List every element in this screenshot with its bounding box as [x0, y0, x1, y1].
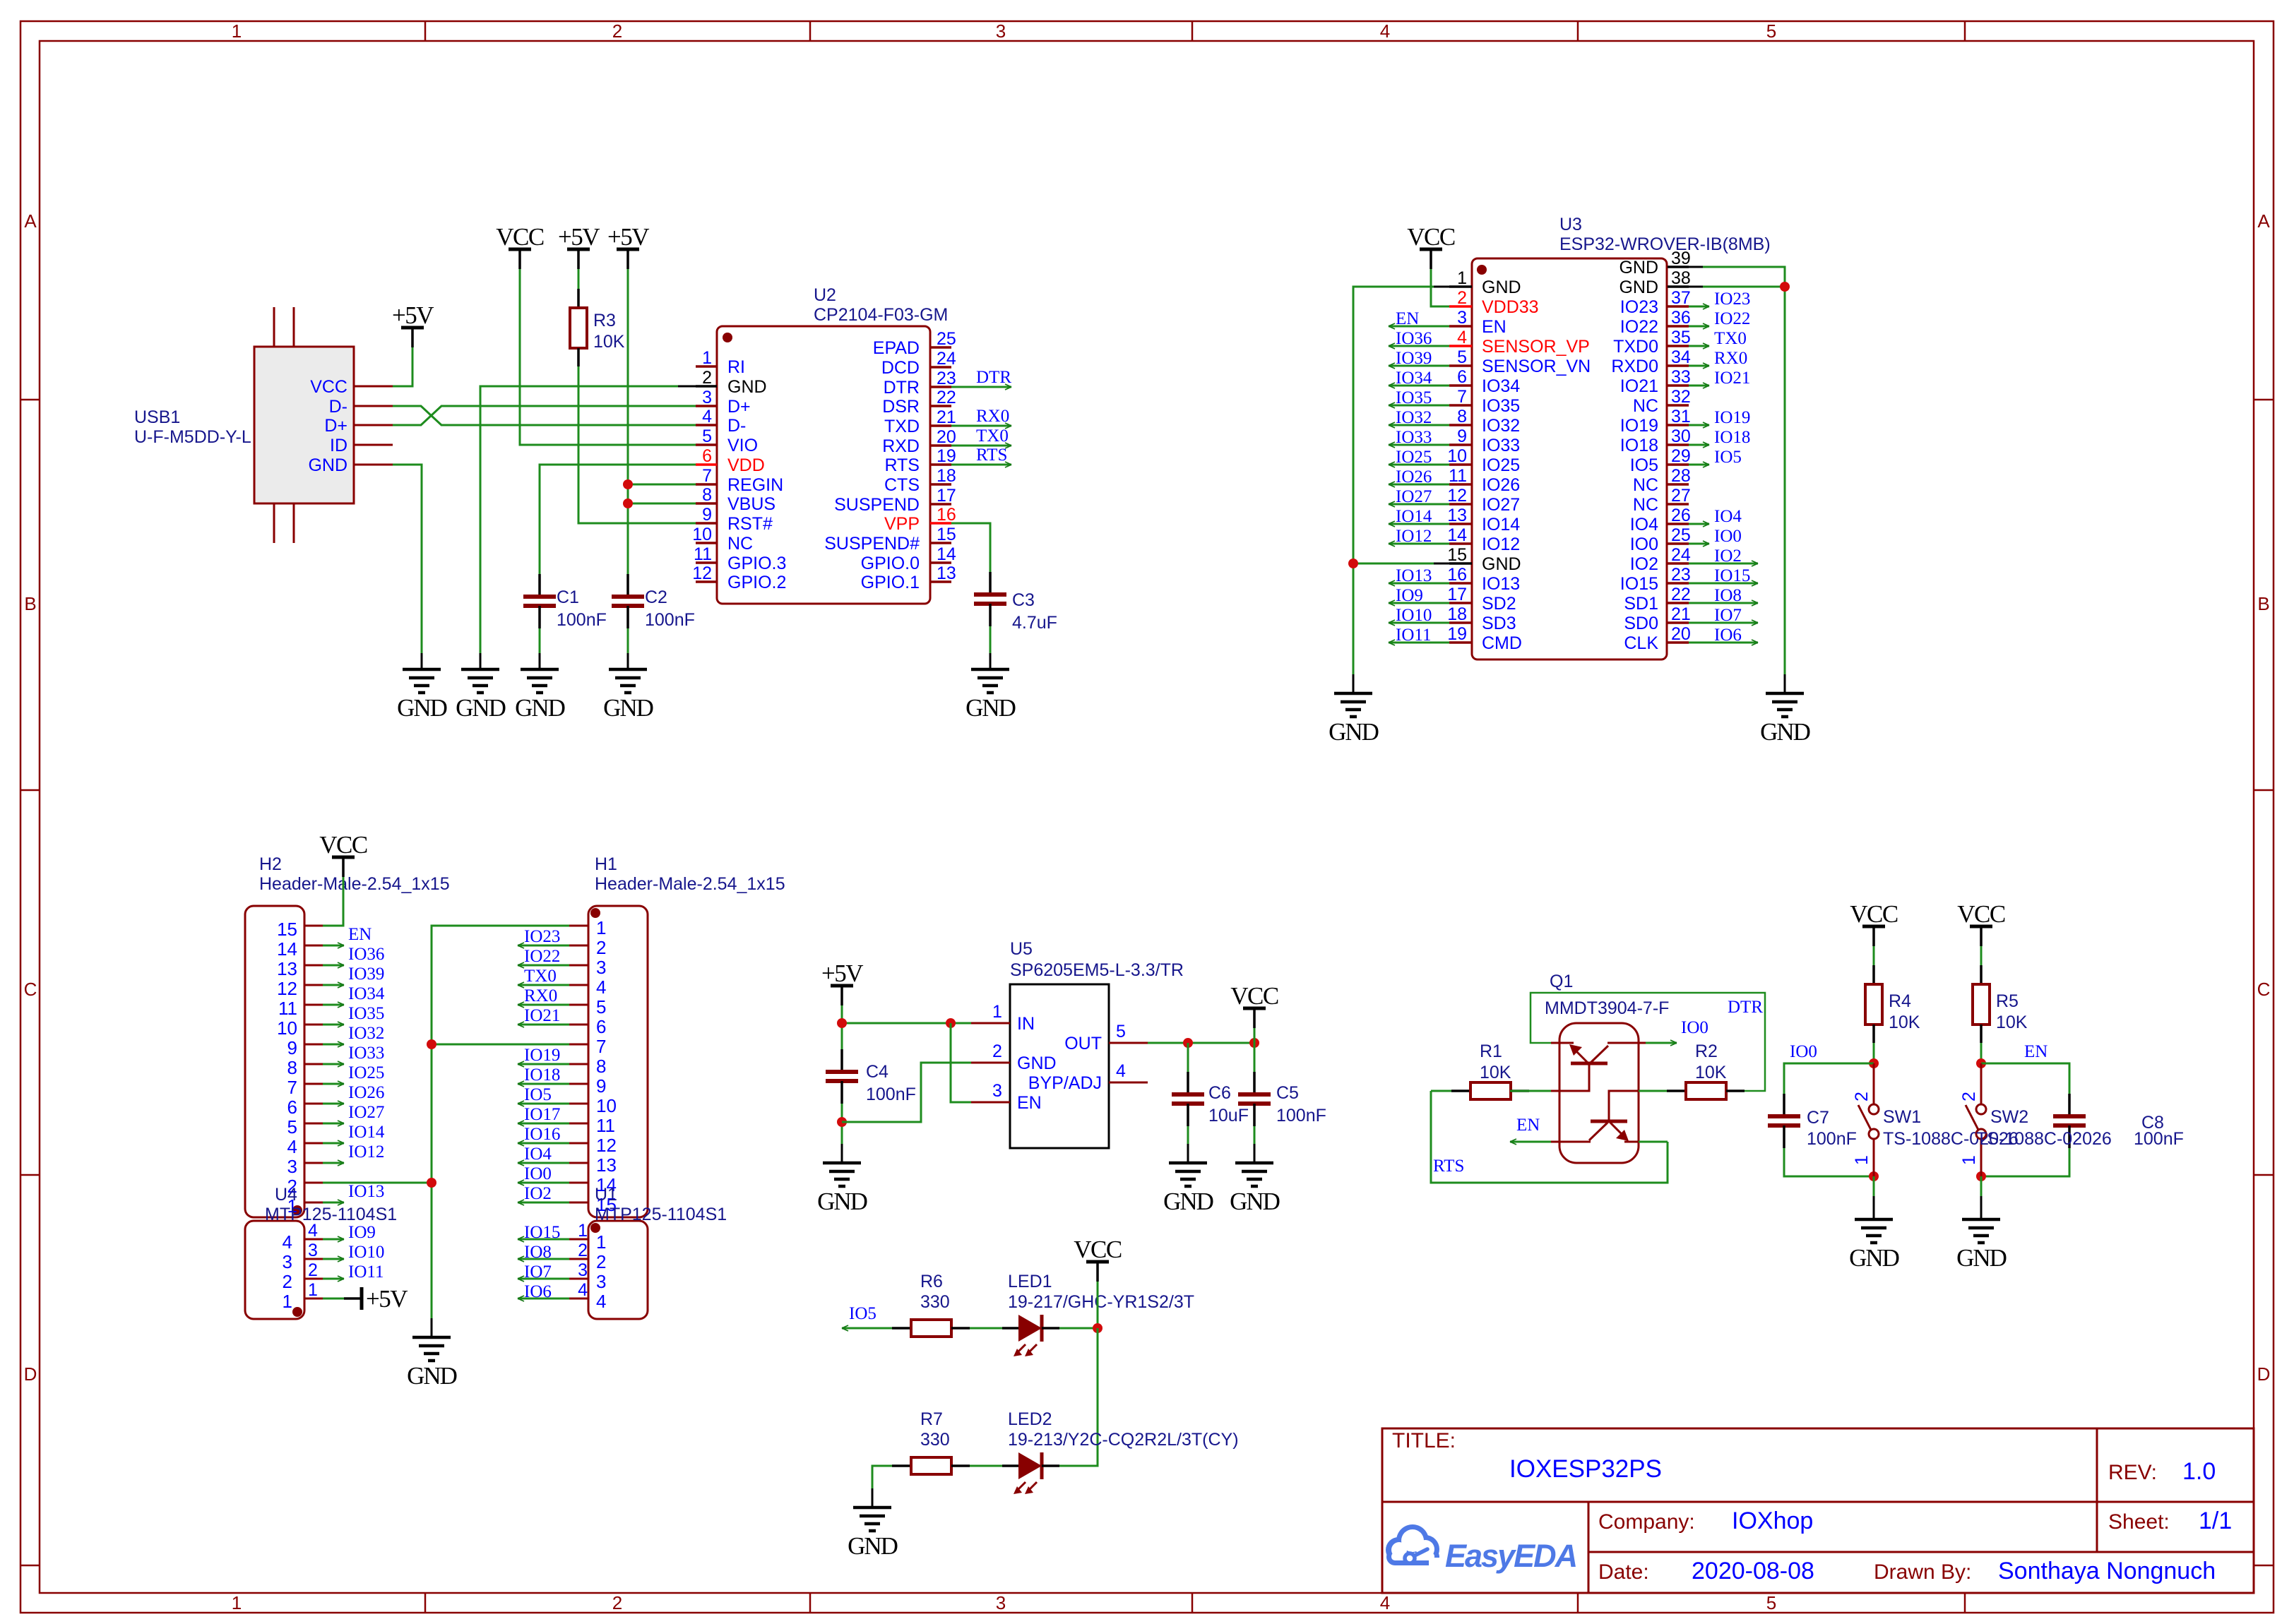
wire SW2 to ground: [1980, 1176, 1983, 1196]
svg-text:C2: C2: [645, 587, 667, 607]
svg-text:3: 3: [996, 20, 1006, 42]
svg-text:IO5: IO5: [849, 1304, 876, 1323]
svg-text:8: 8: [596, 1056, 606, 1077]
svg-text:25: 25: [1671, 525, 1691, 545]
svg-text:2020-08-08: 2020-08-08: [1692, 1558, 1814, 1584]
ground (C1): [515, 669, 565, 722]
svg-text:18: 18: [1447, 604, 1467, 624]
svg-text:NC: NC: [1633, 475, 1658, 495]
svg-text:ID: ID: [330, 436, 347, 455]
wire EN to Q1b: [1510, 1141, 1551, 1143]
svg-text:1: 1: [1959, 1155, 1979, 1165]
ground (C4): [817, 1163, 867, 1215]
wire U3 label IO8: [1689, 602, 1758, 604]
svg-text:12: 12: [692, 563, 712, 583]
junction +5V C4: [837, 1018, 847, 1028]
svg-text:IO0: IO0: [1681, 1018, 1708, 1037]
svg-text:6: 6: [596, 1016, 606, 1037]
svg-text:21: 21: [1671, 604, 1691, 624]
svg-text:VCC: VCC: [1850, 900, 1898, 928]
svg-text:IO33: IO33: [348, 1044, 384, 1063]
capacitor C6: [1172, 1072, 1204, 1126]
wire black segs U2 GND: [678, 386, 696, 388]
junction SW2 bottom: [1976, 1171, 1986, 1181]
svg-text:10K: 10K: [593, 332, 625, 352]
svg-text:10K: 10K: [1996, 1013, 2028, 1032]
svg-text:31: 31: [1671, 407, 1691, 426]
svg-text:IO4: IO4: [1630, 515, 1658, 535]
svg-text:IO36: IO36: [348, 945, 384, 964]
connector USB1 U-F-M5DD-Y-L: [134, 307, 393, 543]
svg-text:TX0: TX0: [1714, 329, 1747, 348]
wire C5 bottom: [1254, 1126, 1256, 1144]
wire U3 label IO25: [1389, 464, 1449, 466]
svg-text:10: 10: [596, 1095, 617, 1116]
wire U2 DTR: [951, 386, 1011, 388]
wire H1 pin13 IO4: [518, 1162, 569, 1164]
svg-text:RST#: RST#: [727, 514, 773, 534]
svg-text:Header-Male-2.54_1x15: Header-Male-2.54_1x15: [595, 874, 785, 894]
svg-text:RX0: RX0: [976, 407, 1009, 426]
svg-text:RTS: RTS: [976, 446, 1007, 465]
wire U3 label IO2: [1689, 563, 1758, 565]
svg-text:19: 19: [1447, 624, 1467, 644]
wire U3 label IO6: [1689, 642, 1758, 644]
wire U3 label IO14: [1389, 523, 1449, 525]
svg-text:24: 24: [1671, 545, 1691, 565]
wire U3 label IO32: [1389, 424, 1449, 426]
svg-text:TXD0: TXD0: [1613, 337, 1658, 357]
wire C1 to ground: [539, 628, 541, 653]
ground (USB): [397, 669, 447, 722]
wire USB GND down: [393, 465, 422, 653]
svg-text:2: 2: [1852, 1092, 1872, 1101]
ground (U3 left): [1329, 693, 1379, 746]
svg-text:+5V: +5V: [366, 1285, 408, 1313]
svg-text:IO23: IO23: [524, 927, 560, 946]
svg-text:1: 1: [308, 1280, 318, 1300]
svg-text:D-: D-: [329, 397, 347, 417]
svg-text:IO11: IO11: [348, 1262, 384, 1282]
junction REGIN: [623, 479, 633, 489]
svg-text:TX0: TX0: [524, 967, 557, 986]
svg-text:11: 11: [278, 998, 297, 1019]
svg-text:IO21: IO21: [1620, 376, 1658, 396]
svg-text:IO9: IO9: [1396, 586, 1423, 605]
svg-text:IO9: IO9: [348, 1223, 376, 1242]
wire C3 to ground: [989, 626, 992, 653]
wire RTS loop: [1431, 1091, 1668, 1183]
svg-text:IO0: IO0: [1714, 527, 1742, 546]
svg-text:+5V: +5V: [392, 301, 434, 329]
wire H1 pin8 IO19: [518, 1063, 569, 1065]
svg-text:VPP: VPP: [884, 514, 920, 534]
svg-text:10K: 10K: [1695, 1063, 1727, 1082]
resistor R5: [1973, 965, 1990, 1043]
svg-text:IO0: IO0: [1630, 535, 1658, 554]
svg-text:1: 1: [1457, 268, 1467, 288]
svg-text:Sheet:: Sheet:: [2108, 1510, 2170, 1534]
svg-text:3: 3: [308, 1241, 318, 1260]
ground (U2 GND): [456, 669, 506, 722]
svg-text:Date:: Date:: [1598, 1560, 1649, 1584]
ground (C3): [965, 669, 1016, 722]
svg-text:IO39: IO39: [1396, 349, 1432, 368]
svg-text:1: 1: [232, 1592, 242, 1613]
svg-text:R2: R2: [1695, 1041, 1718, 1061]
svg-text:10K: 10K: [1480, 1063, 1511, 1082]
svg-text:A: A: [24, 210, 37, 232]
svg-text:GND: GND: [407, 1362, 457, 1390]
svg-text:R4: R4: [1889, 991, 1911, 1011]
svg-text:BYP/ADJ: BYP/ADJ: [1028, 1073, 1102, 1093]
power flag VCC (H2): [319, 831, 367, 877]
svg-text:2: 2: [702, 368, 712, 388]
svg-text:VBUS: VBUS: [727, 494, 775, 514]
svg-text:7: 7: [702, 466, 712, 486]
svg-text:2: 2: [1959, 1092, 1979, 1101]
svg-text:C: C: [24, 979, 37, 1000]
svg-text:EN: EN: [1516, 1116, 1540, 1135]
svg-text:VCC: VCC: [1407, 223, 1455, 251]
wire H2 pin6 IO26: [323, 1103, 344, 1105]
svg-text:U3: U3: [1559, 215, 1582, 234]
svg-text:IO18: IO18: [524, 1065, 560, 1085]
wire GND bus mid to H1 pin7: [432, 1044, 569, 1183]
svg-text:34: 34: [1671, 347, 1691, 367]
svg-text:IO6: IO6: [1714, 626, 1742, 645]
capacitor C4: [826, 1049, 858, 1104]
svg-text:GND: GND: [308, 455, 347, 475]
svg-text:15: 15: [277, 919, 297, 940]
svg-text:IO15: IO15: [1620, 574, 1658, 594]
svg-text:1: 1: [283, 1291, 292, 1312]
svg-text:IO35: IO35: [1482, 396, 1520, 416]
svg-text:1: 1: [578, 1221, 588, 1241]
wire USB D- to U2 D-: [393, 406, 696, 425]
svg-text:TX0: TX0: [976, 426, 1009, 446]
ground (C2): [603, 669, 653, 722]
svg-text:TXD: TXD: [884, 417, 920, 436]
svg-text:30: 30: [1671, 426, 1691, 446]
svg-text:4: 4: [596, 977, 606, 998]
svg-text:SW2: SW2: [1990, 1107, 2028, 1127]
svg-text:NC: NC: [1633, 396, 1658, 416]
svg-text:IO35: IO35: [348, 1004, 384, 1023]
svg-text:13: 13: [937, 563, 956, 583]
svg-text:Drawn By:: Drawn By:: [1874, 1560, 1971, 1584]
svg-text:37: 37: [1671, 288, 1691, 308]
connector U4 MTP125-1104S1: [245, 1185, 397, 1319]
wire IO5 to R6: [842, 1327, 893, 1330]
svg-text:DTR: DTR: [976, 368, 1011, 387]
wire black lead C6 gnd: [1187, 1144, 1189, 1163]
wire R3 to U2 RST#: [578, 366, 696, 523]
svg-text:EPAD: EPAD: [873, 338, 920, 358]
resistor R6: [892, 1320, 970, 1337]
wire U3 label IO9: [1389, 602, 1449, 604]
wire C6 top: [1187, 1043, 1189, 1072]
wire U4 IO9: [323, 1238, 344, 1241]
svg-text:C5: C5: [1276, 1083, 1299, 1103]
svg-text:GPIO.1: GPIO.1: [861, 573, 920, 592]
wire U3 label IO5: [1689, 464, 1709, 466]
wire VCC rail to LED2: [1059, 1328, 1098, 1466]
junction C6: [1183, 1038, 1193, 1048]
wire U3 GND39 rail right: [1703, 267, 1785, 674]
svg-text:+5V: +5V: [558, 223, 600, 251]
svg-text:EN: EN: [1482, 317, 1506, 337]
svg-text:2: 2: [612, 1592, 622, 1613]
svg-text:GND: GND: [1619, 258, 1658, 277]
wire EN to C8: [1981, 1063, 2069, 1094]
wire VCC to R5: [1980, 946, 1983, 965]
wire H2 pin3 IO12: [323, 1162, 344, 1164]
wire H2 pin4 IO14: [323, 1142, 344, 1145]
wire H1 pin10 IO5: [518, 1103, 569, 1105]
svg-text:2: 2: [308, 1260, 318, 1280]
svg-text:3: 3: [287, 1156, 297, 1177]
svg-text:13: 13: [596, 1154, 617, 1176]
wire VCC to U2 VIO: [520, 269, 696, 445]
svg-text:4: 4: [578, 1280, 588, 1300]
wire H2 pin13 IO36: [323, 965, 344, 967]
svg-text:3: 3: [702, 388, 712, 407]
resistor R7: [892, 1457, 970, 1474]
svg-text:IO14: IO14: [1482, 515, 1520, 535]
svg-text:9: 9: [287, 1037, 297, 1058]
svg-text:CLK: CLK: [1624, 633, 1658, 653]
svg-text:SENSOR_VP: SENSOR_VP: [1482, 337, 1590, 357]
svg-text:R7: R7: [920, 1409, 943, 1429]
svg-text:IO0: IO0: [524, 1164, 552, 1183]
svg-text:IO12: IO12: [348, 1142, 384, 1162]
svg-text:38: 38: [1671, 268, 1691, 288]
junction LED1 VCC: [1093, 1323, 1103, 1333]
svg-text:RXD0: RXD0: [1611, 357, 1658, 376]
svg-text:IN: IN: [1017, 1014, 1035, 1034]
wire U3 label IO27: [1389, 503, 1449, 506]
wire U3 label IO0: [1689, 543, 1709, 545]
svg-text:VCC: VCC: [319, 831, 367, 859]
svg-text:7: 7: [287, 1077, 297, 1098]
svg-text:Header-Male-2.54_1x15: Header-Male-2.54_1x15: [259, 874, 450, 894]
ground (SW1): [1849, 1219, 1899, 1272]
svg-text:U4: U4: [275, 1185, 297, 1205]
svg-text:15: 15: [937, 525, 956, 544]
svg-text:9: 9: [1457, 426, 1467, 446]
svg-text:IO14: IO14: [1396, 507, 1432, 526]
wire U3 label IO13: [1389, 583, 1449, 585]
wire C2 to ground: [627, 628, 629, 653]
svg-text:IO10: IO10: [1396, 606, 1432, 625]
wire Q1b base to R2: [1639, 1090, 1667, 1092]
svg-text:GND: GND: [1956, 1244, 2007, 1272]
svg-text:100nF: 100nF: [645, 610, 695, 630]
svg-text:12: 12: [596, 1135, 617, 1156]
svg-text:16: 16: [1447, 565, 1467, 585]
svg-text:22: 22: [937, 388, 956, 407]
svg-text:SP6205EM5-L-3.3/TR: SP6205EM5-L-3.3/TR: [1010, 960, 1184, 980]
svg-text:10uF: 10uF: [1208, 1106, 1249, 1126]
wire H1 pin12 IO16: [518, 1142, 569, 1145]
junction SW1 bottom: [1869, 1171, 1879, 1181]
svg-text:3: 3: [1457, 308, 1467, 328]
wire C6 bottom: [1187, 1126, 1189, 1144]
junction C5: [1249, 1038, 1259, 1048]
svg-text:EN: EN: [1017, 1093, 1042, 1113]
svg-text:GND: GND: [1230, 1188, 1280, 1215]
resistor R3: [570, 289, 587, 366]
svg-text:27: 27: [1671, 486, 1691, 506]
wire +5V down to C4: [841, 1005, 843, 1049]
svg-text:GND: GND: [456, 694, 506, 722]
power flag VCC (LED): [1074, 1236, 1122, 1282]
wire U3 label IO4: [1689, 523, 1709, 525]
svg-text:R5: R5: [1996, 991, 2019, 1011]
ground (header bus): [407, 1337, 457, 1390]
svg-text:USB1: USB1: [134, 407, 180, 427]
wire R6 to LED1: [970, 1327, 1002, 1330]
svg-text:GPIO.3: GPIO.3: [727, 554, 786, 573]
svg-text:4: 4: [283, 1231, 292, 1253]
junction SW2 top: [1976, 1058, 1986, 1068]
svg-text:2: 2: [283, 1271, 292, 1292]
svg-text:6: 6: [287, 1097, 297, 1118]
svg-text:GND: GND: [848, 1532, 898, 1560]
svg-text:21: 21: [937, 407, 956, 427]
svg-text:IO34: IO34: [1482, 376, 1520, 396]
svg-text:DTR: DTR: [884, 378, 920, 398]
svg-text:14: 14: [937, 544, 956, 564]
svg-text:IO21: IO21: [1714, 369, 1750, 388]
svg-text:IO25: IO25: [1482, 455, 1520, 475]
wire U3 label IO10: [1389, 622, 1449, 624]
svg-text:330: 330: [920, 1430, 950, 1450]
svg-text:IO8: IO8: [524, 1243, 552, 1262]
ground (R7): [848, 1507, 898, 1560]
wire U3 label IO18: [1689, 444, 1709, 446]
svg-text:RI: RI: [727, 357, 745, 377]
wire C5 top: [1254, 1043, 1256, 1072]
junction U3 gnd right: [1780, 282, 1790, 292]
wire U2 VPP to C3: [951, 523, 990, 572]
svg-text:GND: GND: [1849, 1244, 1899, 1272]
svg-text:U2: U2: [814, 285, 836, 305]
wire Q1 IO0: [1646, 1042, 1677, 1044]
svg-text:5: 5: [287, 1116, 297, 1138]
power flag +5V (U4): [344, 1285, 408, 1313]
svg-text:23: 23: [937, 369, 956, 388]
ground (C6): [1163, 1163, 1213, 1215]
wire to U2 VBUS: [628, 503, 696, 505]
wire LED1 to VCC rail: [1059, 1327, 1098, 1330]
svg-text:SD2: SD2: [1482, 594, 1516, 614]
wire VCC lead: [1254, 1028, 1256, 1043]
wire U3 label IO35: [1389, 405, 1449, 407]
wire H1 pin3 IO22: [518, 965, 569, 967]
svg-text:3: 3: [992, 1081, 1002, 1101]
wire C7 bottom to SW1: [1784, 1148, 1874, 1176]
wire U2 RX0: [951, 425, 1011, 427]
svg-text:4: 4: [702, 407, 712, 426]
wire black lead GND1: [421, 653, 423, 669]
wire black seg U3 gnd15: [1434, 563, 1449, 565]
svg-text:IO19: IO19: [524, 1046, 560, 1065]
switch SW2 TS-1088C-02026: [1959, 1063, 2112, 1176]
wire H1 pin14 IO0: [518, 1182, 569, 1184]
svg-text:U1: U1: [595, 1185, 617, 1205]
svg-text:CMD: CMD: [1482, 633, 1522, 653]
svg-text:10: 10: [692, 525, 712, 544]
svg-text:IO6: IO6: [524, 1282, 552, 1301]
svg-text:IO15: IO15: [1714, 566, 1750, 585]
svg-text:17: 17: [937, 486, 956, 506]
svg-text:A: A: [2257, 210, 2270, 232]
svg-text:H1: H1: [595, 854, 617, 874]
wire to U2 REGIN: [628, 484, 696, 486]
svg-text:IO2: IO2: [1714, 547, 1742, 566]
wire H1 pin11 IO17: [518, 1123, 569, 1125]
power flag VCC (U5 out): [1230, 982, 1278, 1028]
svg-text:C6: C6: [1208, 1083, 1231, 1103]
ground (SW2): [1956, 1219, 2007, 1272]
svg-text:3: 3: [578, 1260, 588, 1280]
led LED1 19-217/GHC-YR1S2/3T: [1002, 1315, 1059, 1356]
svg-text:IO34: IO34: [1396, 369, 1432, 388]
svg-text:13: 13: [1447, 506, 1467, 525]
svg-text:TS-1088C-02026: TS-1088C-02026: [1976, 1129, 2112, 1149]
svg-text:SD1: SD1: [1624, 594, 1658, 614]
svg-text:2: 2: [612, 20, 622, 42]
power flag VCC (SW2): [1957, 900, 2005, 946]
svg-text:1.0: 1.0: [2182, 1458, 2216, 1485]
svg-text:GND: GND: [1329, 718, 1379, 746]
wire VCC to R4: [1873, 946, 1875, 965]
svg-text:D+: D+: [324, 416, 347, 436]
svg-text:CTS: CTS: [884, 475, 920, 495]
svg-text:IO27: IO27: [1482, 495, 1520, 515]
svg-text:DSR: DSR: [882, 397, 920, 417]
wire +5V rail down to C2: [627, 269, 629, 574]
svg-text:12: 12: [277, 978, 297, 999]
junction GND bus H2 pin2: [427, 1178, 436, 1188]
svg-text:IO25: IO25: [1396, 448, 1432, 467]
svg-text:U5: U5: [1010, 939, 1033, 959]
svg-text:10: 10: [1447, 446, 1467, 466]
wire U1 IO15: [518, 1238, 569, 1241]
svg-text:IO13: IO13: [1482, 574, 1520, 594]
svg-text:IO27: IO27: [1396, 487, 1432, 506]
logo EasyEDA: [1386, 1524, 1576, 1574]
wire Q1b emitter row: [1639, 1141, 1668, 1143]
svg-text:35: 35: [1671, 328, 1691, 347]
wire U3 GND38: [1703, 286, 1785, 288]
wire U3 label IO12: [1389, 543, 1449, 545]
svg-text:100nF: 100nF: [1276, 1106, 1326, 1126]
wire black lead SW2 gnd: [1980, 1196, 1983, 1219]
wire +5V to R3: [578, 269, 580, 289]
junction U5 EN tap: [946, 1018, 956, 1028]
svg-text:IO4: IO4: [524, 1145, 552, 1164]
wire H2 pin9 IO32: [323, 1044, 344, 1046]
svg-text:IO26: IO26: [348, 1083, 384, 1102]
wire H1 pin2 IO23: [518, 945, 569, 947]
svg-text:R3: R3: [593, 311, 616, 330]
svg-text:IO25: IO25: [348, 1063, 384, 1082]
capacitor C3: [974, 572, 1006, 626]
svg-text:LED1: LED1: [1008, 1272, 1052, 1291]
